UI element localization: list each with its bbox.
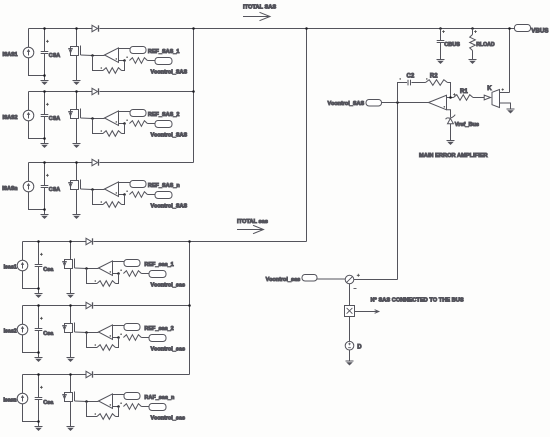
svg-text:C2: C2: [407, 73, 415, 79]
svg-text:K: K: [487, 86, 492, 92]
svg-text:Isas2: Isas2: [4, 328, 17, 334]
svg-text:VBUS: VBUS: [531, 28, 548, 35]
svg-text:Vcontrol_SAS: Vcontrol_SAS: [328, 101, 365, 107]
svg-text:Vcontrol_SAS: Vcontrol_SAS: [151, 132, 188, 138]
svg-text:Vcontrol_sas: Vcontrol_sas: [266, 277, 301, 283]
svg-text:RLOAD: RLOAD: [476, 42, 495, 48]
svg-text:Vcontrol_sas: Vcontrol_sas: [151, 282, 186, 288]
svg-text:CSA: CSA: [49, 116, 60, 122]
svg-text:Csa: Csa: [43, 267, 54, 273]
svg-text:Vcontrol_SAS: Vcontrol_SAS: [151, 203, 188, 209]
svg-text:Csa: Csa: [43, 400, 54, 406]
svg-text:Vcontrol_SAS: Vcontrol_SAS: [151, 69, 188, 75]
svg-text:CSA: CSA: [49, 53, 60, 59]
svg-text:MAIN ERROR AMPLIFIER: MAIN ERROR AMPLIFIER: [419, 153, 488, 159]
svg-text:ISASn: ISASn: [2, 186, 17, 192]
svg-text:REF_SAS_1: REF_SAS_1: [148, 49, 180, 55]
svg-text:R2: R2: [430, 73, 438, 79]
svg-text:ITOTAL SAS: ITOTAL SAS: [243, 5, 276, 11]
svg-text:RAF_sas_n: RAF_sas_n: [144, 395, 175, 401]
svg-text:ISAS2: ISAS2: [3, 115, 18, 121]
svg-text:REF_sas_1: REF_sas_1: [144, 262, 173, 268]
svg-text:D: D: [357, 345, 362, 351]
svg-text:R1: R1: [460, 89, 468, 95]
svg-text:CBUS: CBUS: [444, 42, 460, 48]
svg-text:ISAS1: ISAS1: [3, 52, 18, 58]
svg-text:Vref_Bus: Vref_Bus: [455, 122, 479, 128]
svg-text:Isas1: Isas1: [4, 264, 17, 270]
svg-text:Csa: Csa: [43, 331, 54, 337]
svg-text:Isasn: Isasn: [3, 397, 16, 403]
svg-text:N° SAS CONNECTED TO THE BUS: N° SAS CONNECTED TO THE BUS: [371, 298, 464, 304]
svg-text:REF_SAS_2: REF_SAS_2: [148, 112, 180, 118]
svg-text:ITOTAL sas: ITOTAL sas: [237, 219, 268, 225]
svg-text:Vcontrol_sas: Vcontrol_sas: [151, 415, 186, 421]
svg-text:Vcontrol_sas: Vcontrol_sas: [151, 346, 186, 352]
svg-text:REF_SAS_n: REF_SAS_n: [148, 183, 180, 189]
svg-text:CSA: CSA: [49, 187, 60, 193]
svg-text:REF_sas_2: REF_sas_2: [144, 326, 173, 332]
